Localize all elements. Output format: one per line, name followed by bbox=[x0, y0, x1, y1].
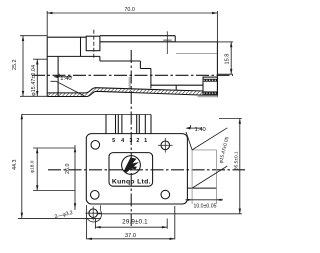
flange body bbox=[86, 134, 187, 204]
vertical x=80.5 bbox=[80, 37, 82, 56]
vertical centerline connecting views bbox=[130, 50, 132, 226]
top edge left section bbox=[47, 36, 86, 38]
dim phi15.47+-0.04 top view bbox=[31, 59, 47, 96]
crosshair hole top bbox=[166, 31, 168, 54]
pin shroud bbox=[22, 115, 151, 134]
part outline top view bbox=[47, 30, 217, 97]
dim 29.9+-0.1 bbox=[95, 218, 167, 228]
vertical left cap bbox=[57, 56, 59, 96]
axes bottom view bbox=[48, 169, 245, 171]
step down bbox=[174, 36, 176, 42]
nozzle right bbox=[187, 128, 230, 188]
svg-text:φ15.47±0.04: φ15.47±0.04 bbox=[31, 65, 37, 96]
horizontal axis centerline top view bbox=[32, 74, 233, 76]
internal gray line right block bbox=[176, 53, 217, 55]
svg-text:29.9±0.1: 29.9±0.1 bbox=[122, 218, 148, 225]
connector bump bbox=[86, 36, 100, 51]
svg-text:2: 2 bbox=[136, 138, 139, 144]
ext line left 70.0 bbox=[46, 11, 48, 37]
svg-text:1: 1 bbox=[144, 138, 147, 144]
membrane hatched strip bbox=[47, 88, 203, 97]
svg-text:26.0: 26.0 bbox=[65, 164, 71, 175]
svg-text:10.0±0.05: 10.0±0.05 bbox=[193, 203, 216, 209]
top edge right block bbox=[175, 41, 217, 43]
gray center stem bbox=[129, 77, 131, 89]
internal line body bbox=[47, 55, 100, 57]
svg-text:1:40: 1:40 bbox=[195, 127, 206, 133]
svg-text:35.5±0.1: 35.5±0.1 bbox=[233, 151, 239, 170]
corner holes bbox=[91, 141, 100, 150]
svg-text:25.2: 25.2 bbox=[12, 60, 18, 71]
svg-text:37.0: 37.0 bbox=[125, 233, 136, 239]
striped connector right bbox=[197, 77, 218, 97]
dim 35.5+-0.1 bbox=[97, 119, 242, 214]
svg-text:3: 3 bbox=[129, 138, 132, 144]
witness diagonals bbox=[192, 128, 227, 150]
left edge bbox=[46, 37, 48, 96]
dim phi18.0 bbox=[30, 148, 76, 191]
right edge bbox=[216, 42, 218, 97]
dim 44.3 bbox=[12, 114, 101, 218]
svg-text:1:40: 1:40 bbox=[60, 76, 71, 82]
crosshair on top-right hole bbox=[164, 138, 166, 153]
taper 1:40 bottom view bbox=[185, 125, 205, 150]
dim 25.2 bbox=[12, 36, 47, 97]
dim 26.0 bbox=[65, 145, 76, 210]
dim 37.0 bbox=[87, 205, 175, 240]
dim 70.0 line bbox=[47, 7, 217, 14]
dim 15.8 bbox=[217, 42, 233, 74]
top edge center section bbox=[100, 35, 175, 37]
dim 10.0+-0.05 bbox=[186, 188, 224, 209]
bump centerline bbox=[93, 30, 95, 60]
svg-text:Kunqo Ltd.: Kunqo Ltd. bbox=[112, 179, 151, 186]
svg-text:44.3: 44.3 bbox=[12, 160, 18, 171]
svg-text:15.8: 15.8 bbox=[225, 54, 231, 65]
phi3.2 hole bbox=[54, 205, 102, 222]
ext line right 70.0 bbox=[216, 11, 218, 42]
svg-text:70.0: 70.0 bbox=[124, 7, 134, 13]
logo box bbox=[109, 153, 153, 187]
svg-text:5: 5 bbox=[112, 138, 115, 144]
svg-text:φ18.0: φ18.0 bbox=[30, 160, 36, 173]
taper symbol 1:40 top view bbox=[51, 74, 85, 96]
chamfer line center section bbox=[100, 41, 175, 43]
